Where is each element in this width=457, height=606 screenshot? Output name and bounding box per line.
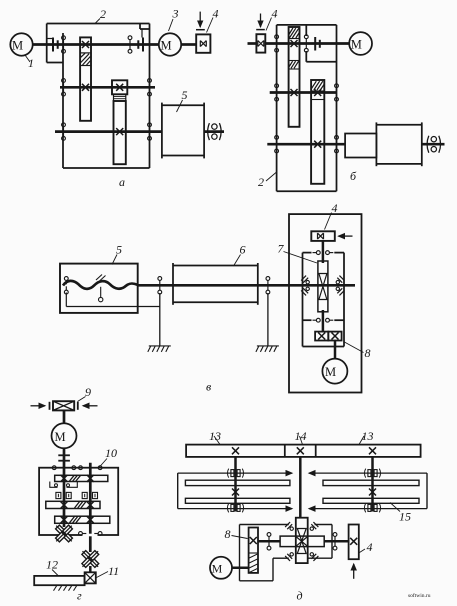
svg-text:M: M [325,365,336,379]
svg-text:а: а [119,175,125,189]
svg-text:10: 10 [105,446,117,460]
svg-text:M: M [12,39,23,53]
svg-text:2: 2 [100,7,106,21]
svg-text:5: 5 [116,243,122,257]
svg-text:14: 14 [295,429,307,443]
svg-text:6: 6 [240,243,246,257]
svg-text:12: 12 [46,558,58,572]
svg-text:2: 2 [258,175,264,189]
svg-text:4: 4 [272,7,278,21]
svg-text:4: 4 [213,7,219,21]
svg-text:11: 11 [108,564,119,578]
svg-text:4: 4 [332,201,338,215]
svg-text:8: 8 [225,527,231,541]
svg-text:9: 9 [85,385,91,399]
svg-text:M: M [54,430,65,444]
svg-text:softwin.ru: softwin.ru [408,592,431,599]
svg-text:M: M [160,39,171,53]
svg-text:M: M [212,562,223,576]
svg-text:8: 8 [365,346,371,360]
svg-text:1: 1 [28,56,34,70]
svg-text:5: 5 [182,88,188,102]
svg-text:13: 13 [209,429,221,443]
svg-text:13: 13 [362,429,374,443]
svg-text:г: г [77,589,82,603]
svg-text:7: 7 [278,242,285,256]
svg-text:4: 4 [367,540,373,554]
svg-text:M: M [351,38,362,52]
svg-text:3: 3 [172,7,179,21]
svg-text:б: б [350,169,357,183]
svg-text:д: д [297,589,303,603]
svg-text:15: 15 [399,510,411,524]
svg-text:в: в [206,380,211,394]
